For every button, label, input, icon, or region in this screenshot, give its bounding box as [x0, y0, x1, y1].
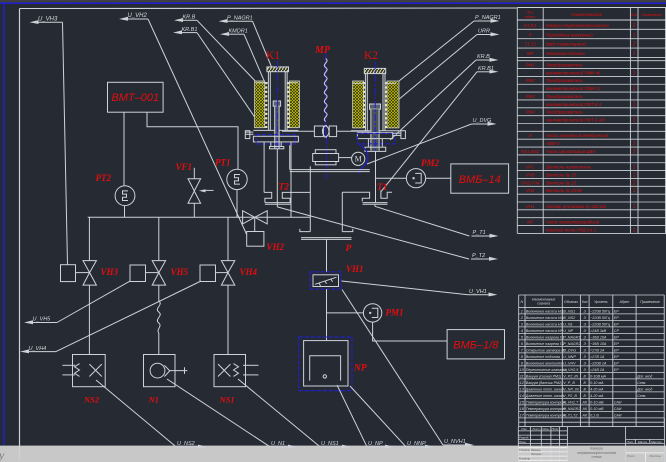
svg-text:0-10 мА: 0-10 мА	[590, 381, 604, 385]
svg-text:Примечание: Примечание	[640, 300, 660, 304]
signal arrow KR.B1 left	[173, 30, 182, 34]
valve VH5	[152, 261, 165, 273]
svg-text:T2: T2	[279, 183, 290, 193]
svg-text:НВМ-3: НВМ-3	[546, 141, 560, 146]
svg-text:Включение насоса НЦ2: Включение насоса НЦ2	[526, 316, 565, 320]
wire leader KR.B to K2 flange	[390, 60, 476, 140]
svg-text:U_NP: U_NP	[368, 441, 383, 447]
pump NP body	[304, 341, 348, 386]
svg-text:Петров: Петров	[531, 452, 542, 456]
svg-text:P_T1,T2: P_T1,T2	[563, 413, 577, 417]
svg-text:Включение нагрева П2: Включение нагрева П2	[526, 342, 565, 346]
svg-text:1: 1	[633, 86, 636, 92]
svg-text:1: 1	[633, 204, 636, 210]
svg-text:U_VH3: U_VH3	[38, 17, 58, 23]
svg-text:P_NAGR1: P_NAGR1	[227, 15, 253, 21]
svg-text:BMБ–14: BMБ–14	[459, 174, 501, 186]
svg-text:2: 2	[632, 42, 636, 48]
svg-text:Преобразователь: Преобразователь	[546, 63, 584, 68]
flex hose to N1	[158, 285, 160, 301]
svg-text:=27В 1А: =27В 1А	[590, 348, 605, 352]
svg-text:VH2: VH2	[267, 242, 285, 252]
svg-text:Включение насоса НР: Включение насоса НР	[526, 329, 564, 333]
signal arrow U_NS2	[198, 445, 207, 449]
window top edge band	[0, 0, 666, 2]
svg-text:Температура контроль: Температура контроль	[526, 407, 567, 411]
svg-text:VH3: VH3	[101, 267, 119, 277]
wire leader P_NAGR2 to K2	[397, 21, 475, 83]
VF1 adjust arrow	[202, 189, 214, 191]
wire leader T2 to P_T2	[277, 207, 469, 259]
wire PM1 to BMB-1/8	[373, 322, 448, 341]
svg-text:манометрический ПМТ-6-3: манометрический ПМТ-6-3	[546, 102, 602, 107]
wire leader NS1	[238, 379, 320, 447]
svg-text:U_NP: U_NP	[563, 329, 573, 333]
pedestal K1	[270, 142, 272, 147]
wire BMT-001 to PT2	[123, 112, 125, 186]
controller box BMB-1/8	[447, 330, 504, 359]
wire PT1 to manifold	[236, 190, 238, 218]
svg-text:N: N	[520, 300, 523, 304]
svg-text:M: M	[355, 155, 362, 164]
svg-text:Камера термокомпрессионная: Камера термокомпрессионная	[546, 23, 610, 28]
svg-text:V_P2_B: V_P2_B	[563, 394, 577, 398]
MP blue centerline	[325, 54, 327, 139]
adapter left leg	[309, 166, 311, 231]
svg-text:U_DVG: U_DVG	[563, 348, 576, 352]
svg-text:PM1: PM1	[386, 308, 404, 318]
svg-text:P: P	[346, 244, 352, 254]
svg-text:Масшт.: Масшт.	[651, 440, 663, 444]
gray bottom strip	[0, 446, 666, 462]
svg-text:Камера: Камера	[590, 446, 603, 450]
svg-text:=24В 2А: =24В 2А	[590, 368, 605, 372]
components table frame	[516, 8, 518, 234]
coupling right	[329, 126, 336, 137]
signal arrow P_T2	[489, 257, 498, 261]
signal arrow KMDR1 left	[220, 32, 229, 36]
actuator VH3	[61, 265, 76, 282]
svg-text:Преобразователь: Преобразователь	[546, 94, 584, 99]
wire leader P_NAGR1 to K1 cap	[253, 21, 272, 67]
svg-text:Схем.: Схем.	[637, 394, 646, 398]
svg-text:VH1: VH1	[346, 264, 364, 274]
wire leader VH1 bottom	[342, 290, 443, 446]
svg-text:U_NNP: U_NNP	[407, 441, 426, 447]
wire PM2 to BMB-14	[426, 177, 451, 179]
svg-text:U_N1: U_N1	[271, 441, 285, 447]
signal arrow KR.B right	[490, 58, 499, 62]
svg-text:АК: АК	[581, 400, 587, 404]
MP flexible link squiggle	[324, 59, 327, 122]
svg-text:Вентиль ду 25: Вентиль ду 25	[546, 180, 577, 185]
signals table empty tail rows	[518, 418, 520, 427]
svg-text:Преобразователь: Преобразователь	[546, 110, 584, 115]
svg-text:T1,T2: T1,T2	[524, 42, 536, 47]
svg-text:Затвор ручнодвиж ду 110/160: Затвор ручнодвиж ду 110/160	[546, 204, 607, 209]
svg-text:P: P	[529, 32, 532, 37]
svg-text:Схем.: Схем.	[637, 381, 646, 385]
svg-text:PT2: PT2	[96, 173, 112, 183]
svg-text:Температура контроль: Температура контроль	[526, 400, 567, 404]
chamber K2 cap	[364, 68, 385, 73]
bench channel	[290, 169, 370, 171]
svg-text:Лит.: Лит.	[626, 440, 634, 444]
motor M	[352, 152, 365, 165]
actuator VH4	[200, 265, 216, 282]
K2 right port stub	[393, 132, 401, 134]
VH1 to NP pipe	[326, 289, 328, 341]
svg-text:Адрес: Адрес	[618, 300, 629, 304]
svg-text:манометрический ПМИ-12: манометрический ПМИ-12	[546, 86, 601, 91]
svg-text:Включение нагрева П1: Включение нагрева П1	[526, 335, 565, 339]
signal arrow U_NVH1	[465, 443, 474, 447]
svg-text:1: 1	[633, 172, 636, 178]
svg-text:ЕР: ЕР	[614, 355, 619, 359]
signal arrow U_N1	[288, 445, 297, 449]
valve VH1 blue box	[310, 272, 342, 289]
svg-text:Кол: Кол	[582, 300, 588, 304]
svg-text:BMT–001: BMT–001	[111, 92, 159, 104]
svg-text:1: 1	[633, 51, 636, 57]
gearbox-motor shaft	[339, 157, 352, 159]
svg-text:СР: СР	[614, 329, 620, 333]
svg-text:~220В 1А: ~220В 1А	[590, 361, 607, 365]
svg-text:АК: АК	[581, 413, 587, 417]
svg-text:U_NS2: U_NS2	[177, 441, 195, 447]
svg-text:U_VHV: U_VHV	[563, 361, 576, 365]
svg-text:Вентиль ду 15: Вентиль ду 15	[546, 172, 577, 177]
svg-text:U_NS1: U_NS1	[563, 309, 575, 313]
svg-text:VH3,VH4: VH3,VH4	[521, 180, 540, 185]
flange K2 blue box	[357, 133, 395, 143]
svg-text:САИ: САИ	[614, 400, 622, 404]
svg-text:N1: N1	[148, 395, 159, 405]
valve VH4	[221, 261, 234, 273]
svg-text:Давление тепл. канал: Давление тепл. канал	[525, 394, 564, 398]
wire K2 pipe to PM2	[376, 177, 407, 179]
heater K2 right	[387, 81, 399, 128]
svg-text:MP: MP	[527, 51, 534, 56]
svg-text:V_P2_IN: V_P2_IN	[563, 374, 578, 378]
svg-text:Включение насоса НЦ1: Включение насоса НЦ1	[526, 309, 565, 313]
svg-text:ЕР: ЕР	[614, 368, 619, 372]
svg-text:ЕР: ЕР	[614, 309, 619, 313]
coupling shafts	[282, 130, 314, 132]
svg-text:ЕР: ЕР	[614, 348, 619, 352]
svg-text:MP: MP	[314, 45, 331, 56]
wire leader URR to K2	[398, 35, 477, 101]
chamber K2 walls	[364, 74, 366, 131]
svg-text:2: 2	[632, 23, 636, 29]
svg-text:P_NAGR1: P_NAGR1	[563, 335, 580, 339]
svg-text:обозн.: обозн.	[525, 15, 536, 19]
signal arrow U_VH1	[489, 293, 498, 297]
svg-text:АК: АК	[581, 407, 587, 411]
chamber K1 walls	[267, 72, 269, 130]
controller box BMB-14	[451, 164, 509, 193]
svg-text:P_VH1,T: P_VH1,T	[563, 400, 579, 404]
centerline K1	[277, 61, 279, 151]
wire leader U_VH2 to VH2	[148, 19, 247, 235]
svg-text:~36В 10А: ~36В 10А	[590, 342, 607, 346]
svg-text:P_T1: P_T1	[473, 230, 486, 236]
wire BMT-001 to PT1	[147, 112, 238, 169]
svg-text:VH2: VH2	[526, 188, 535, 193]
svg-text:U_VH2: U_VH2	[128, 13, 148, 19]
K2 tail pipe	[375, 151, 377, 202]
pump N1	[144, 355, 176, 387]
svg-text:Насос вакуумный мембранный: Насос вакуумный мембранный	[546, 133, 609, 138]
svg-text:Масса: Масса	[638, 440, 647, 444]
svg-text:диодный типа НРД 0,4-1: диодный типа НРД 0,4-1	[546, 227, 597, 232]
K1 left port stub	[245, 131, 253, 133]
svg-text:V_NP_IN: V_NP_IN	[563, 387, 579, 391]
svg-text:URR: URR	[478, 29, 490, 35]
svg-text:0-10В мА: 0-10В мА	[590, 374, 606, 378]
svg-text:U_NVH1: U_NVH1	[444, 439, 466, 445]
svg-text:U_NS1: U_NS1	[321, 441, 339, 447]
pump NS1	[214, 355, 246, 387]
valve VF1	[193, 168, 195, 179]
centerline K2	[374, 62, 376, 150]
svg-text:PM2: PM2	[526, 78, 536, 83]
svg-text:KR.B: KR.B	[477, 54, 490, 60]
svg-text:11: 11	[520, 373, 524, 378]
gauge PT2	[115, 186, 135, 206]
svg-text:Преобразователь: Преобразователь	[546, 78, 584, 83]
wire leader U_VH3 to VH3	[63, 22, 68, 264]
svg-text:Ввод термопарный: Ввод термопарный	[546, 42, 586, 47]
svg-text:T1: T1	[377, 183, 388, 193]
signal arrow U_VH3	[30, 20, 39, 24]
wire leader KR.B to K1	[197, 20, 257, 83]
svg-text:K1: K1	[266, 50, 280, 62]
valve VH3	[83, 261, 96, 273]
wire leader U_VH4	[56, 281, 201, 352]
svg-text:манометрический ПМТ-6-3М: манометрический ПМТ-6-3М	[546, 117, 605, 122]
svg-text:Доп. вход: Доп. вход	[636, 387, 652, 391]
svg-text:1: 1	[633, 70, 636, 76]
signal arrow U_VH2	[119, 17, 128, 21]
K2 bottom shoulders	[351, 130, 399, 132]
svg-text:Включение подъема: Включение подъема	[526, 355, 560, 359]
svg-text:Доп. вход: Доп. вход	[636, 374, 652, 378]
manifold pipe	[88, 216, 311, 218]
svg-text:KR.B1: KR.B1	[182, 27, 198, 33]
svg-text:U_VH5: U_VH5	[33, 317, 52, 323]
svg-text:VF1: VF1	[176, 162, 193, 172]
svg-text:U_NNP: U_NNP	[563, 355, 576, 359]
svg-text:Вакуум (сигнал РМ1): Вакуум (сигнал РМ1)	[526, 374, 561, 378]
piston rod K2	[370, 104, 381, 109]
flange K1 blue box	[256, 135, 295, 144]
flange K2	[357, 133, 392, 139]
svg-text:Примечание: Примечание	[641, 13, 662, 17]
svg-text:NS1: NS1	[219, 395, 235, 405]
svg-text:NS1,NS2: NS1,NS2	[521, 149, 540, 154]
svg-text:Лист: Лист	[531, 427, 540, 431]
motor blue outline	[359, 144, 369, 174]
svg-text:Переключение клапанов: Переключение клапанов	[526, 368, 567, 372]
svg-text:ЕР: ЕР	[614, 322, 619, 326]
blue drawing border left	[3, 4, 5, 446]
svg-text:1: 1	[521, 308, 523, 313]
svg-text:сигнала: сигнала	[537, 302, 550, 306]
flange K1	[253, 136, 298, 142]
svg-text:PT1: PT1	[215, 158, 231, 168]
svg-text:Кол: Кол	[631, 13, 637, 17]
wire leader NNP	[350, 386, 406, 447]
actuator VH2	[247, 232, 264, 247]
svg-text:KR.B: KR.B	[183, 15, 196, 21]
signal arrow U_VH4	[20, 349, 29, 353]
svg-text:Наименование: Наименование	[571, 12, 603, 17]
heater element dashes K2	[363, 82, 365, 128]
svg-text:САИ: САИ	[614, 413, 622, 417]
wire VF1 to manifold	[193, 203, 195, 217]
svg-text:4-20 мА: 4-20 мА	[590, 394, 604, 398]
svg-text:VH5: VH5	[171, 267, 189, 277]
svg-text:P_NAGR2: P_NAGR2	[563, 407, 580, 411]
paper frame left line	[19, 9, 21, 461]
gearbox	[315, 150, 336, 154]
svg-text:0-10 мВ: 0-10 мВ	[590, 400, 604, 404]
svg-text:Пров.: Пров.	[519, 440, 527, 444]
signal arrow P_T1	[490, 234, 499, 238]
svg-text:2: 2	[632, 180, 636, 186]
svg-text:манометрический ПМИ-46: манометрический ПМИ-46	[546, 70, 601, 75]
blue drawing border top	[0, 2, 666, 4]
svg-text:1: 1	[633, 141, 636, 147]
svg-text:K1,K2: K1,K2	[524, 23, 537, 28]
signal arrow U_NS1	[342, 445, 351, 449]
svg-text:2: 2	[632, 149, 636, 155]
svg-text:P_NAGR1: P_NAGR1	[475, 15, 501, 21]
svg-text:PM3: PM3	[526, 94, 536, 99]
wire PT2 to manifold	[124, 206, 126, 218]
signal arrow U_NP	[385, 445, 394, 449]
svg-text:0-10 мВ: 0-10 мВ	[590, 407, 604, 411]
heater K2 left	[353, 81, 364, 128]
svg-text:U_NS2: U_NS2	[563, 316, 575, 320]
svg-text:ЕР: ЕР	[614, 342, 619, 346]
svg-text:~220В 50Гц: ~220В 50Гц	[590, 309, 610, 313]
svg-text:P_NAGR2: P_NAGR2	[563, 342, 580, 346]
svg-text:Вакуум (датчик РМ2): Вакуум (датчик РМ2)	[526, 381, 562, 385]
svg-text:KMDR1: KMDR1	[229, 28, 248, 34]
K1 top shoulders	[256, 82, 269, 84]
adapter right leg	[341, 192, 343, 232]
svg-text:VH5: VH5	[526, 172, 535, 177]
svg-text:PM2: PM2	[421, 158, 440, 168]
svg-text:NS2: NS2	[83, 395, 100, 405]
svg-text:U_VH2,5: U_VH2,5	[563, 368, 579, 372]
wire leader VH1 to U_VH1	[342, 281, 469, 295]
wire leader KR.B1 to T1	[381, 72, 477, 192]
svg-text:=27В 1А: =27В 1А	[590, 355, 605, 359]
heater K1 right	[289, 81, 299, 128]
signal arrow U_DVG right	[488, 122, 497, 126]
pump NP magnet	[310, 356, 341, 381]
svg-text:KR.B1: KR.B1	[478, 66, 494, 72]
K1 flange right drop	[290, 142, 292, 217]
svg-text:Переходник вакуумный: Переходник вакуумный	[546, 32, 593, 37]
svg-text:P_T2: P_T2	[472, 253, 485, 259]
svg-text:Давление тепл. канал: Давление тепл. канал	[525, 387, 564, 391]
coupling left	[314, 126, 323, 137]
coupling arcs	[322, 126, 329, 138]
pump NS2	[73, 355, 106, 387]
svg-text:Включение насоса Н1: Включение насоса Н1	[526, 322, 563, 326]
svg-text:~36В 10А: ~36В 10А	[590, 335, 607, 339]
svg-text:U_VH4: U_VH4	[29, 346, 47, 352]
svg-text:y: y	[0, 448, 5, 462]
chamber K1 cap	[267, 67, 289, 72]
svg-text:Изм: Изм	[521, 427, 526, 431]
signal arrow U_VH5	[24, 320, 33, 324]
svg-text:U_N1: U_N1	[563, 322, 572, 326]
signal arrow KR.B left	[174, 18, 183, 22]
svg-text:NP: NP	[527, 220, 533, 225]
wire leader N1	[167, 379, 270, 447]
paper frame top line	[20, 7, 518, 10]
wire leader KR.B1 to K1	[197, 33, 262, 127]
svg-text:САИ: САИ	[614, 407, 622, 411]
wire leader KMDR1 to K1	[244, 34, 265, 83]
svg-text:1: 1	[633, 117, 636, 123]
svg-text:1: 1	[633, 188, 636, 194]
svg-text:Т.контр.: Т.контр.	[519, 448, 531, 452]
svg-text:Nдок.: Nдок.	[542, 427, 549, 431]
svg-text:~220В 50Гц: ~220В 50Гц	[590, 322, 610, 326]
K2 top shoulders	[353, 82, 365, 84]
controller box BMT-001	[108, 82, 164, 112]
svg-text:Насос магниторазрядный: Насос магниторазрядный	[546, 220, 600, 225]
title block sheet cells	[626, 452, 665, 454]
piston rod K1	[273, 101, 280, 106]
signals table frame	[518, 295, 520, 418]
svg-text:VF1: VF1	[526, 165, 535, 170]
wire leader NP	[337, 385, 367, 447]
wire leader U_DVG to motor	[367, 124, 472, 164]
svg-text:Температура контроль: Температура контроль	[526, 413, 567, 417]
svg-text:Уровень: Уровень	[594, 300, 608, 304]
adapter P bar	[301, 237, 352, 239]
svg-text:=24В 3кВ: =24В 3кВ	[590, 329, 607, 333]
title block frame	[517, 427, 519, 462]
svg-text:1: 1	[633, 32, 636, 38]
svg-text:U_VH1: U_VH1	[469, 289, 487, 295]
svg-text:Лист: Лист	[626, 454, 635, 458]
actuator VH5	[130, 265, 146, 282]
wire leader NS2	[96, 380, 176, 447]
heater K1 left	[255, 81, 265, 128]
svg-text:Насос цеолитовый ЦВН: Насос цеолитовый ЦВН	[546, 149, 596, 154]
wire NP pipe to PM1	[327, 312, 364, 314]
gauge PT1	[227, 169, 247, 189]
svg-text:1: 1	[633, 102, 636, 108]
svg-text:Механизм подъема: Механизм подъема	[546, 51, 585, 56]
svg-text:PM1: PM1	[526, 63, 536, 68]
svg-text:0,1 В: 0,1 В	[590, 413, 599, 417]
signal arrow URR right	[491, 32, 500, 36]
heater element dashes K1	[265, 82, 267, 128]
svg-text:Вентиль-натекатель: Вентиль-натекатель	[546, 165, 592, 170]
svg-text:BMБ–1/8: BMБ–1/8	[453, 340, 499, 352]
svg-text:Подп: Подп	[552, 427, 559, 431]
svg-text:VH1: VH1	[526, 204, 535, 209]
